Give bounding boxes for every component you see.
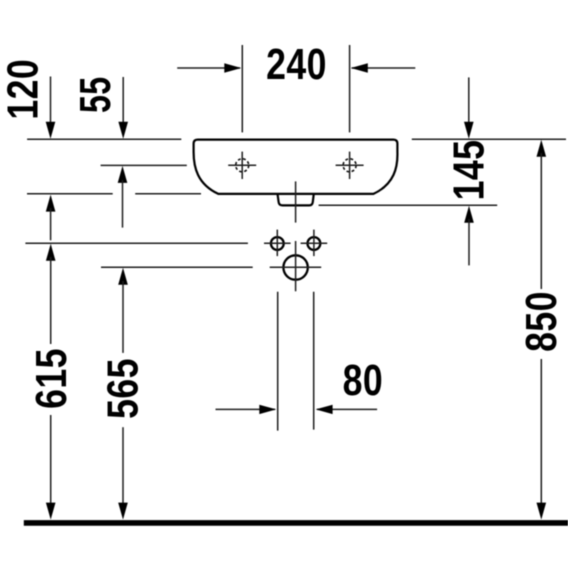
dimension 55 (rim to tap centre)	[71, 76, 128, 227]
drain hole (big circle + crosshair)	[270, 241, 322, 291]
svg-text:80: 80	[343, 357, 383, 405]
basin outline	[194, 140, 398, 194]
basin bottom reference line (two segments)	[27, 193, 113, 195]
floor line	[24, 520, 568, 526]
dimension 145 (rim to drain bottom)	[445, 77, 493, 265]
drain hole reference line	[101, 266, 253, 268]
svg-text:145: 145	[445, 140, 493, 201]
tap hole left (dashed circle + crosshair)	[228, 152, 256, 179]
rim reference line right	[412, 138, 566, 140]
drain bottom reference line	[319, 204, 498, 206]
tap hole right (dashed circle + crosshair)	[336, 152, 364, 179]
supply holes reference line	[25, 242, 248, 244]
rim reference line left	[27, 138, 181, 140]
drain fitting below basin	[278, 195, 314, 206]
centre line through drain	[295, 181, 297, 222]
dimension 240 (tap hole spacing)	[177, 41, 415, 133]
svg-text:615: 615	[28, 348, 76, 409]
dimension 80 (supply hole spacing)	[216, 292, 384, 431]
dimension 120 (rim to basin bottom)	[0, 59, 55, 240]
tap-centre reference line	[101, 164, 187, 166]
dimension 850 (floor to rim)	[518, 140, 566, 520]
svg-text:850: 850	[518, 291, 566, 352]
dimension 565 (floor to drain hole)	[99, 268, 147, 520]
svg-text:55: 55	[71, 76, 120, 113]
supply hole right (circle + crosshair)	[301, 230, 328, 257]
svg-text:240: 240	[266, 41, 327, 89]
svg-text:120: 120	[0, 59, 47, 120]
supply hole left (circle + crosshair)	[264, 230, 291, 257]
dimension 615 (floor to supply holes)	[28, 244, 76, 520]
svg-text:565: 565	[99, 358, 147, 419]
